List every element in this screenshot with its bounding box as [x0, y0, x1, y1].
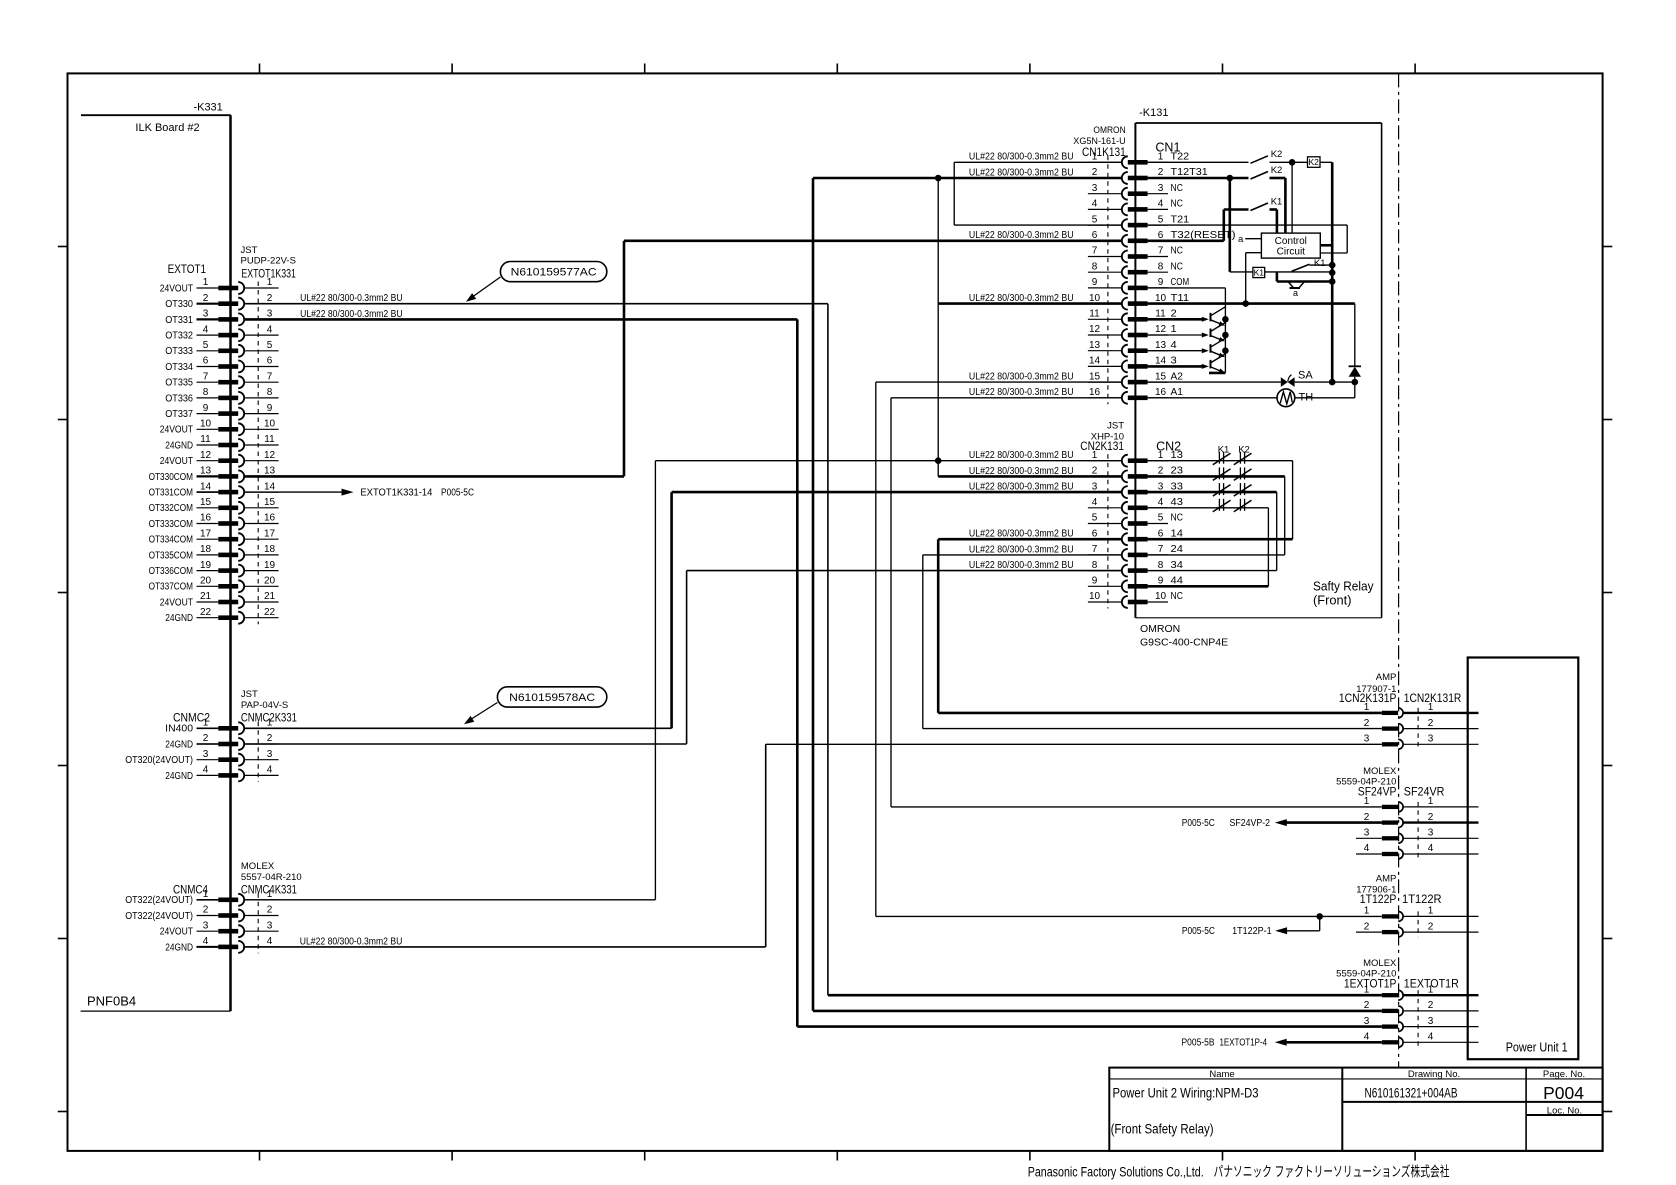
connector SF24VP/SF24VR (MOLEX 5559-04P-210): [1336, 766, 1444, 799]
pin 1: [1364, 906, 1479, 922]
pin 8 34: [1088, 560, 1183, 577]
svg-text:OT331COM: OT331COM: [149, 488, 193, 499]
svg-text:2: 2: [267, 905, 273, 916]
pin 6 T32(RESET): [1088, 230, 1236, 247]
forced-guide contact K2 row 1: [1234, 452, 1252, 465]
svg-text:ILK Board #2: ILK Board #2: [135, 122, 199, 134]
svg-text:Power Unit 1: Power Unit 1: [1506, 1041, 1568, 1055]
pin 5 OT333: [165, 340, 278, 357]
pin 2: [1364, 718, 1479, 734]
stub SF24VP-4: [1356, 853, 1382, 855]
pin 1 T22: [1088, 152, 1190, 169]
svg-text:NC: NC: [1171, 183, 1183, 194]
pin 13 OT330COM: [149, 466, 279, 483]
svg-text:OT336: OT336: [165, 393, 193, 404]
svg-text:14: 14: [1155, 356, 1167, 367]
pin 1 IN400: [165, 718, 278, 735]
pin 11 2: [1088, 309, 1177, 326]
svg-text:UL#22 80/300-0.3mm2 BU: UL#22 80/300-0.3mm2 BU: [300, 936, 403, 947]
svg-text:UL#22 80/300-0.3mm2 BU: UL#22 80/300-0.3mm2 BU: [969, 529, 1074, 540]
svg-text:1: 1: [1092, 152, 1098, 163]
connector mating dashed line: [257, 893, 259, 953]
pin 22 24GND: [165, 607, 278, 624]
wire CN2-2 23 left: [938, 466, 1121, 477]
svg-text:T11: T11: [1171, 293, 1190, 304]
svg-text:A2: A2: [1171, 371, 1184, 382]
svg-text:OT331: OT331: [165, 315, 193, 326]
balloon N610159578AC: [464, 687, 607, 725]
svg-text:1: 1: [1171, 324, 1178, 335]
connector 1CN2K131P/1CN2K131R (AMP 177907-1): [1339, 672, 1461, 705]
pin 17 OT334COM: [149, 528, 279, 545]
transistor bus junction dots: [1209, 316, 1229, 373]
svg-text:a: a: [1238, 234, 1244, 245]
pin 4 OT332: [165, 324, 278, 341]
svg-text:16: 16: [200, 513, 212, 524]
svg-text:4: 4: [1364, 843, 1370, 854]
svg-text:3: 3: [1428, 1016, 1434, 1027]
svg-text:K1: K1: [1314, 258, 1326, 269]
svg-text:1T122P-1: 1T122P-1: [1232, 926, 1272, 937]
svg-text:OT322(24VOUT): OT322(24VOUT): [125, 895, 193, 906]
contact K2 on T22 line: [1148, 149, 1309, 166]
svg-text:2: 2: [1092, 466, 1098, 477]
contact K2 on T12T31 line: [1148, 165, 1286, 233]
surge absorber SA on A2 line: [1148, 370, 1355, 387]
svg-text:1EXTOT1P: 1EXTOT1P: [1344, 978, 1397, 990]
svg-text:a: a: [1293, 288, 1298, 298]
svg-text:MOLEX: MOLEX: [241, 861, 275, 872]
wire CN1-9 COM to transistor bus: [1148, 288, 1226, 373]
svg-text:20: 20: [264, 576, 276, 587]
wire T12T31 branch to CN2-1/CN2-2: [935, 175, 942, 477]
svg-text:K2: K2: [1271, 149, 1283, 160]
forced-guide contact K1 row 3: [1213, 483, 1231, 496]
connector CN2K131 (JST XHP-10): [1080, 421, 1181, 454]
svg-text:P005-5B: P005-5B: [1182, 1038, 1215, 1049]
connector CNMC2K331 (JST PAP-04V-S): [173, 689, 297, 724]
connector mating dashed line right: [1417, 911, 1419, 937]
svg-text:9: 9: [1158, 277, 1164, 288]
pin 12 24VOUT: [160, 450, 279, 467]
svg-text:5: 5: [267, 340, 273, 351]
svg-text:2: 2: [267, 293, 273, 304]
svg-text:1T122R: 1T122R: [1402, 894, 1442, 906]
svg-text:6: 6: [203, 356, 209, 367]
connector mating dashed line: [1107, 454, 1109, 608]
pin 3: [1364, 828, 1479, 844]
pin 9 COM: [1088, 277, 1189, 294]
svg-text:2: 2: [203, 293, 209, 304]
svg-text:(Front): (Front): [1313, 593, 1352, 608]
svg-text:17: 17: [200, 528, 212, 539]
connector mating dashed line: [257, 282, 259, 625]
svg-text:1EXTOT1P-4: 1EXTOT1P-4: [1220, 1038, 1268, 1049]
pin 4 NC: [1088, 199, 1183, 216]
svg-text:3: 3: [203, 749, 209, 760]
svg-text:Control: Control: [1275, 236, 1307, 247]
board -K331 ILK Board #2: [81, 102, 231, 1012]
svg-text:14: 14: [264, 481, 276, 492]
svg-text:9: 9: [1092, 277, 1098, 288]
svg-text:6: 6: [267, 356, 273, 367]
svg-text:NC: NC: [1171, 591, 1183, 602]
svg-text:1: 1: [267, 718, 273, 729]
pin 16 OT333COM: [149, 513, 279, 530]
svg-text:11: 11: [1155, 309, 1166, 320]
wire SF24VP-2 arrow P005-5C: [1182, 818, 1382, 829]
svg-text:JST: JST: [241, 689, 258, 700]
pin 4 24GND: [165, 765, 278, 782]
svg-text:1T122P: 1T122P: [1360, 894, 1397, 906]
svg-text:19: 19: [264, 560, 276, 571]
svg-text:3: 3: [1092, 183, 1098, 194]
svg-text:12: 12: [1155, 324, 1167, 335]
wire CN1-15 A2 to 1T122P-1: [876, 372, 1382, 920]
pin 1: [1364, 984, 1479, 1000]
svg-text:3: 3: [203, 309, 209, 320]
pin 8 NC: [1088, 261, 1183, 278]
pin 2: [1364, 812, 1479, 828]
balloon N610159577AC: [466, 262, 607, 302]
pin 3 NC: [1088, 183, 1183, 200]
svg-text:SF24VP-2: SF24VP-2: [1230, 818, 1271, 829]
svg-text:NC: NC: [1171, 261, 1183, 272]
forced-guide contact K1 row 2: [1213, 467, 1231, 480]
svg-text:T12T31: T12T31: [1171, 167, 1209, 178]
svg-text:UL#22 80/300-0.3mm2 BU: UL#22 80/300-0.3mm2 BU: [969, 372, 1074, 383]
svg-text:2: 2: [1428, 921, 1434, 932]
svg-text:7: 7: [1092, 246, 1098, 257]
svg-text:18: 18: [200, 544, 212, 555]
wire CNMC4-4 24GND to 1CN2K131P-3: [244, 744, 1382, 947]
wire control circuit right to K2 line: [1320, 244, 1332, 247]
svg-text:PNF0B4: PNF0B4: [87, 994, 136, 1009]
svg-text:15: 15: [264, 497, 276, 508]
pin 7 NC: [1088, 246, 1183, 263]
svg-text:OT336COM: OT336COM: [149, 566, 193, 577]
svg-text:NC: NC: [1171, 199, 1183, 210]
svg-text:UL#22 80/300-0.3mm2 BU: UL#22 80/300-0.3mm2 BU: [969, 450, 1074, 461]
svg-text:23: 23: [1171, 466, 1184, 477]
svg-text:4: 4: [1092, 199, 1098, 210]
pin 9 44: [1088, 576, 1183, 593]
svg-text:OMRON: OMRON: [1093, 125, 1125, 136]
svg-text:P005-5C: P005-5C: [1182, 818, 1215, 829]
svg-text:5: 5: [1092, 214, 1098, 225]
svg-text:UL#22 80/300-0.3mm2 BU: UL#22 80/300-0.3mm2 BU: [969, 482, 1074, 493]
svg-text:-K331: -K331: [193, 102, 222, 114]
svg-text:1: 1: [1364, 702, 1370, 713]
svg-text:3: 3: [203, 920, 209, 931]
svg-text:2: 2: [1158, 167, 1164, 178]
svg-text:OT334: OT334: [165, 362, 193, 373]
relay coil K1: [1230, 267, 1265, 277]
wire CN2-4 to CN2-9 via contacts: [1148, 508, 1269, 587]
forced-guide contact K2 row 4: [1234, 499, 1252, 512]
svg-text:1: 1: [1158, 450, 1164, 461]
svg-text:2: 2: [203, 905, 209, 916]
label PNF0B4: [81, 994, 231, 1012]
pin 2 23: [1088, 466, 1183, 483]
wire CN2-8 34 to CNMC2-2: [244, 560, 1121, 744]
svg-text:10: 10: [1155, 293, 1167, 304]
diode between T11 and A2: [1349, 304, 1361, 386]
wire EXTOT1K331-14 stub with arrow to P005-5C: [244, 487, 474, 498]
svg-text:T32(RESET): T32(RESET): [1171, 230, 1236, 241]
svg-text:24VOUT: 24VOUT: [160, 283, 193, 294]
wire K2 coil vertical to A2 line: [1329, 162, 1336, 385]
pin 5 T21: [1088, 214, 1190, 231]
svg-text:NC: NC: [1171, 513, 1183, 524]
svg-text:1: 1: [1428, 796, 1434, 807]
wire T22 branch to control circuit: [1291, 162, 1293, 233]
svg-text:4: 4: [203, 324, 209, 335]
pin 7 24: [1088, 544, 1183, 561]
svg-text:OT333: OT333: [165, 346, 193, 357]
svg-text:OT337: OT337: [165, 409, 193, 420]
connector 1EXTOT1P/1EXTOT1R (MOLEX 5559-04P-210): [1336, 958, 1459, 990]
wire CN1-10 T11 left: [938, 293, 1121, 304]
svg-text:3: 3: [1364, 734, 1370, 745]
svg-text:PAP-04V-S: PAP-04V-S: [241, 700, 288, 711]
svg-text:1: 1: [1364, 906, 1370, 917]
svg-text:7: 7: [1158, 246, 1164, 257]
svg-text:OMRON: OMRON: [1140, 623, 1180, 635]
svg-text:21: 21: [200, 591, 212, 602]
wire T12T31 branch to relay coil K1: [1229, 178, 1232, 272]
control circuit input a: [1238, 234, 1261, 245]
svg-text:3: 3: [1428, 734, 1434, 745]
svg-text:OT320(24VOUT): OT320(24VOUT): [125, 755, 193, 766]
svg-text:4: 4: [1428, 843, 1434, 854]
svg-text:22: 22: [200, 607, 212, 618]
svg-text:K2: K2: [1271, 165, 1283, 176]
pin 2 24GND: [165, 733, 278, 750]
svg-text:24GND: 24GND: [165, 613, 193, 624]
svg-text:22: 22: [264, 607, 276, 618]
svg-text:UL#22 80/300-0.3mm2 BU: UL#22 80/300-0.3mm2 BU: [969, 544, 1074, 555]
svg-text:5: 5: [1158, 214, 1164, 225]
svg-text:24VOUT: 24VOUT: [160, 425, 193, 436]
svg-text:MOLEX: MOLEX: [1363, 766, 1397, 777]
svg-text:OT322(24VOUT): OT322(24VOUT): [125, 911, 193, 922]
svg-text:UL#22 80/300-0.3mm2 BU: UL#22 80/300-0.3mm2 BU: [969, 167, 1074, 178]
svg-text:1: 1: [1428, 702, 1434, 713]
connector mating dashed line right: [1417, 802, 1419, 859]
pin 11 24GND: [165, 434, 278, 451]
svg-text:6: 6: [1158, 230, 1164, 241]
svg-text:8: 8: [1092, 560, 1098, 571]
pin 1 OT322(24VOUT): [125, 889, 278, 906]
svg-text:CN2K131: CN2K131: [1080, 441, 1124, 453]
svg-text:2: 2: [1092, 167, 1098, 178]
pin 3: [1364, 734, 1479, 750]
wire EXTOT1K331-2 OT330 to 1EXTOT1P-1: [244, 293, 1382, 995]
svg-text:MOLEX: MOLEX: [1363, 958, 1397, 969]
svg-text:3: 3: [1364, 1016, 1370, 1027]
svg-text:OT330: OT330: [165, 299, 193, 310]
svg-text:UL#22 80/300-0.3mm2 BU: UL#22 80/300-0.3mm2 BU: [969, 466, 1074, 477]
svg-text:(Front Safety Relay): (Front Safety Relay): [1111, 1122, 1214, 1137]
svg-text:P004: P004: [1543, 1083, 1584, 1103]
pin 7 OT335: [165, 371, 278, 388]
svg-text:SA: SA: [1298, 370, 1313, 382]
pin 21 24VOUT: [160, 591, 279, 608]
svg-text:43: 43: [1171, 497, 1184, 508]
pin 15 OT332COM: [149, 497, 279, 514]
pin 20 OT337COM: [149, 576, 279, 593]
pin 5 NC: [1088, 513, 1183, 530]
svg-text:2: 2: [1428, 812, 1434, 823]
svg-text:7: 7: [1158, 544, 1164, 555]
svg-text:パナソニック ファクトリーソリューションズ株式会社: パナソニック ファクトリーソリューションズ株式会社: [1214, 1163, 1450, 1179]
svg-text:4: 4: [1364, 1032, 1370, 1043]
svg-text:Drawing No.: Drawing No.: [1408, 1069, 1460, 1080]
svg-text:1: 1: [267, 889, 273, 900]
svg-text:14: 14: [1171, 528, 1184, 539]
svg-text:OT330COM: OT330COM: [149, 472, 193, 483]
svg-text:1: 1: [203, 889, 209, 900]
connector mating dashed line right: [1417, 708, 1419, 749]
svg-text:T21: T21: [1171, 214, 1190, 225]
svg-text:7: 7: [1092, 544, 1098, 555]
svg-text:4: 4: [267, 324, 273, 335]
svg-text:UL#22 80/300-0.3mm2 BU: UL#22 80/300-0.3mm2 BU: [969, 230, 1074, 241]
svg-text:T22: T22: [1171, 152, 1190, 163]
svg-text:1: 1: [203, 718, 209, 729]
wire CN2-7 24 to 1CN2K131P-2: [923, 544, 1382, 728]
svg-text:2: 2: [1158, 466, 1164, 477]
svg-text:SF24VR: SF24VR: [1404, 787, 1445, 799]
svg-text:4: 4: [203, 936, 209, 947]
pin 8 OT336: [165, 387, 278, 404]
pin 3 OT320(24VOUT): [125, 749, 278, 766]
transistor Q3 output pin 13: [1148, 338, 1226, 357]
stub 1T122P-2: [1356, 931, 1382, 933]
connector mating dashed line: [257, 722, 259, 782]
svg-text:NC: NC: [1171, 246, 1183, 257]
pin 10 T11: [1088, 293, 1190, 310]
svg-text:2: 2: [1428, 718, 1434, 729]
svg-text:K1: K1: [1271, 197, 1283, 208]
svg-text:OT335COM: OT335COM: [149, 550, 193, 561]
svg-text:Page. No.: Page. No.: [1543, 1069, 1585, 1080]
svg-text:24GND: 24GND: [165, 942, 193, 953]
svg-text:3: 3: [1158, 183, 1164, 194]
svg-text:Circuit: Circuit: [1277, 247, 1306, 258]
svg-text:PUDP-22V-S: PUDP-22V-S: [241, 255, 296, 266]
svg-text:24GND: 24GND: [165, 739, 193, 750]
svg-text:Safty Relay: Safty Relay: [1313, 579, 1374, 594]
svg-text:10: 10: [200, 419, 212, 430]
svg-text:Loc. No.: Loc. No.: [1547, 1106, 1582, 1117]
pin 10 NC: [1088, 591, 1183, 608]
svg-text:UL#22 80/300-0.3mm2 BU: UL#22 80/300-0.3mm2 BU: [969, 152, 1074, 163]
svg-text:15: 15: [200, 497, 212, 508]
pin 1 24VOUT: [160, 277, 279, 294]
control circuit box: [1261, 233, 1320, 258]
wire CN2-6 14 to 1CN2K131P-1: [938, 529, 1382, 713]
wire T32 to K1 contact: [1148, 240, 1224, 243]
pin 9 OT337: [165, 403, 278, 420]
svg-text:3: 3: [267, 749, 273, 760]
pin 3: [1364, 1016, 1479, 1032]
wire CN1K131-2 T12T31 to 1EXTOT1P-2: [813, 167, 1382, 1011]
svg-text:8: 8: [203, 387, 209, 398]
svg-text:1: 1: [1428, 906, 1434, 917]
svg-text:4: 4: [1092, 497, 1098, 508]
svg-text:Name: Name: [1209, 1069, 1234, 1080]
svg-text:OT337COM: OT337COM: [149, 582, 193, 593]
svg-text:4: 4: [203, 765, 209, 776]
svg-text:8: 8: [267, 387, 273, 398]
svg-text:3: 3: [267, 309, 273, 320]
connector mating dashed line: [1107, 156, 1109, 404]
pin 2 OT322(24VOUT): [125, 905, 278, 922]
svg-text:4: 4: [1428, 1032, 1434, 1043]
svg-text:2: 2: [1364, 812, 1370, 823]
wire jumper CN1-1 T22 to CN1-5 T21: [954, 152, 1121, 225]
svg-text:UL#22 80/300-0.3mm2 BU: UL#22 80/300-0.3mm2 BU: [969, 387, 1074, 398]
svg-text:44: 44: [1171, 576, 1184, 587]
pin 2 OT330: [165, 293, 278, 310]
svg-text:N610159577AC: N610159577AC: [511, 266, 597, 278]
svg-text:3: 3: [1158, 481, 1164, 492]
svg-text:11: 11: [1089, 309, 1100, 320]
svg-text:2: 2: [1364, 1000, 1370, 1011]
wire CN2-1 to CN2-6 via contacts: [1148, 461, 1293, 540]
svg-text:24: 24: [1171, 544, 1184, 555]
svg-text:24VOUT: 24VOUT: [160, 597, 193, 608]
wire CN2-2 to CN2-7 via contacts: [1148, 476, 1285, 555]
pin 14 3: [1088, 356, 1177, 373]
svg-text:3: 3: [1092, 481, 1098, 492]
svg-text:UL#22 80/300-0.3mm2 BU: UL#22 80/300-0.3mm2 BU: [300, 309, 403, 320]
svg-text:N610159578AC: N610159578AC: [509, 692, 595, 704]
wire CN1-10 T11 right: [1148, 302, 1355, 305]
svg-text:14: 14: [1089, 356, 1101, 367]
pin 14 OT331COM: [149, 481, 279, 498]
relay coil K2: [1308, 157, 1333, 168]
svg-text:18: 18: [264, 544, 276, 555]
pin 13 4: [1088, 340, 1177, 357]
svg-text:1: 1: [1364, 984, 1370, 995]
svg-text:8: 8: [1158, 261, 1164, 272]
svg-text:OT334COM: OT334COM: [149, 535, 193, 546]
svg-text:24GND: 24GND: [165, 440, 193, 451]
svg-text:10: 10: [1089, 591, 1101, 602]
svg-text:CN1K131: CN1K131: [1082, 147, 1126, 159]
svg-text:2: 2: [267, 733, 273, 744]
svg-text:4: 4: [267, 936, 273, 947]
pin 1 13: [1088, 450, 1183, 467]
svg-text:19: 19: [200, 560, 212, 571]
contact K1 upper: [1224, 197, 1283, 241]
svg-text:15: 15: [1089, 371, 1101, 382]
svg-text:21: 21: [264, 591, 276, 602]
connector 1T122P/1T122R (AMP 177906-1): [1356, 874, 1441, 907]
wire 1T122P-1 branch arrow P005-5C: [1182, 916, 1320, 937]
svg-text:OT333COM: OT333COM: [149, 519, 193, 530]
svg-text:13: 13: [1171, 450, 1184, 461]
wire EXTOT1K331-13 OT330COM to CN1K131-6 T32(RESET): [244, 230, 1121, 476]
svg-text:24GND: 24GND: [165, 771, 193, 782]
wire 1EXTOT1P-4 arrow P005-5B: [1182, 1038, 1382, 1049]
wire CN2-3 to CN2-8 via contacts: [1148, 492, 1277, 570]
svg-text:10: 10: [1089, 293, 1101, 304]
svg-text:13: 13: [1155, 340, 1167, 351]
